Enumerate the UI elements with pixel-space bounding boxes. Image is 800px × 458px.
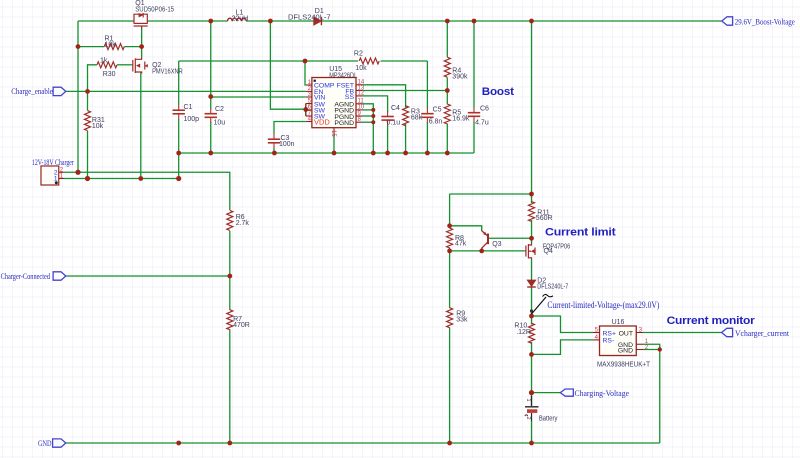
svg-text:2: 2 [525, 417, 531, 420]
svg-text:390k: 390k [452, 73, 468, 80]
svg-text:DFLS240L-7: DFLS240L-7 [537, 284, 568, 291]
svg-text:R30: R30 [103, 71, 116, 78]
svg-text:33k: 33k [456, 316, 468, 323]
svg-text:GND: GND [38, 438, 52, 448]
svg-text:560R: 560R [536, 215, 553, 222]
svg-text:DFLS240L-7: DFLS240L-7 [288, 15, 331, 22]
svg-text:C5: C5 [433, 106, 442, 113]
svg-text:C6: C6 [480, 106, 489, 113]
svg-text:2.7k: 2.7k [236, 220, 250, 227]
svg-text:68k: 68k [411, 114, 423, 121]
svg-text:OUT: OUT [619, 330, 633, 337]
svg-text:GND: GND [618, 348, 633, 355]
svg-text:Charger-Connected: Charger-Connected [1, 271, 51, 281]
svg-text:12V-18V Charger: 12V-18V Charger [32, 157, 74, 167]
svg-text:1: 1 [54, 176, 58, 183]
svg-text:16.9k: 16.9k [452, 116, 470, 123]
svg-text:RS-: RS- [603, 338, 615, 345]
svg-text:29.6V_Boost-Voltage: 29.6V_Boost-Voltage [735, 16, 795, 26]
svg-text:100p: 100p [184, 116, 200, 123]
svg-text:Charging-Voltage: Charging-Voltage [575, 388, 630, 398]
svg-text:U16: U16 [612, 319, 625, 326]
svg-text:C4: C4 [391, 105, 400, 112]
svg-text:Vcharger_current: Vcharger_current [735, 328, 790, 338]
svg-text:Current-limited-Voltage-(max29: Current-limited-Voltage-(max29.0V) [547, 300, 659, 310]
svg-text:RS+: RS+ [603, 330, 616, 337]
svg-text:.12R: .12R [516, 329, 531, 336]
svg-text:47k: 47k [455, 240, 467, 247]
svg-text:15: 15 [330, 130, 336, 137]
svg-text:6.8n: 6.8n [429, 118, 443, 125]
svg-text:C2: C2 [215, 106, 224, 113]
svg-text:Q4: Q4 [544, 248, 553, 255]
svg-text:Charge_enable: Charge_enable [11, 86, 53, 96]
svg-text:SS: SS [345, 94, 355, 101]
svg-text:C1: C1 [184, 104, 193, 111]
svg-text:10: 10 [358, 105, 365, 111]
svg-text:R2: R2 [354, 50, 363, 57]
svg-text:12: 12 [358, 91, 365, 97]
svg-text:Current monitor: Current monitor [667, 315, 756, 327]
svg-text:11: 11 [358, 99, 365, 105]
svg-text:10u: 10u [214, 119, 226, 126]
svg-text:Boost: Boost [482, 86, 515, 98]
svg-text:1: 1 [525, 399, 531, 402]
svg-text:10k: 10k [92, 123, 104, 130]
svg-text:PGND: PGND [334, 120, 354, 127]
svg-text:MAX9938HEUK+T: MAX9938HEUK+T [597, 362, 651, 369]
svg-text:Current limit: Current limit [545, 227, 616, 239]
svg-text:Q3: Q3 [492, 241, 501, 248]
svg-text:Battery: Battery [539, 415, 558, 422]
svg-text:4.7u: 4.7u [475, 119, 489, 126]
svg-text:PMV16XNR: PMV16XNR [152, 69, 183, 76]
svg-text:22uH: 22uH [232, 16, 249, 23]
svg-text:1k: 1k [100, 57, 108, 64]
svg-text:10k: 10k [355, 65, 367, 72]
svg-text:10k: 10k [105, 41, 117, 48]
svg-text:100n: 100n [279, 141, 295, 148]
svg-text:SUD50P06-15: SUD50P06-15 [135, 7, 174, 14]
svg-text:VDD: VDD [314, 118, 330, 127]
svg-text:MP3426DL: MP3426DL [329, 72, 357, 79]
svg-text:470R: 470R [233, 322, 250, 329]
svg-text:0.1u: 0.1u [387, 119, 401, 126]
